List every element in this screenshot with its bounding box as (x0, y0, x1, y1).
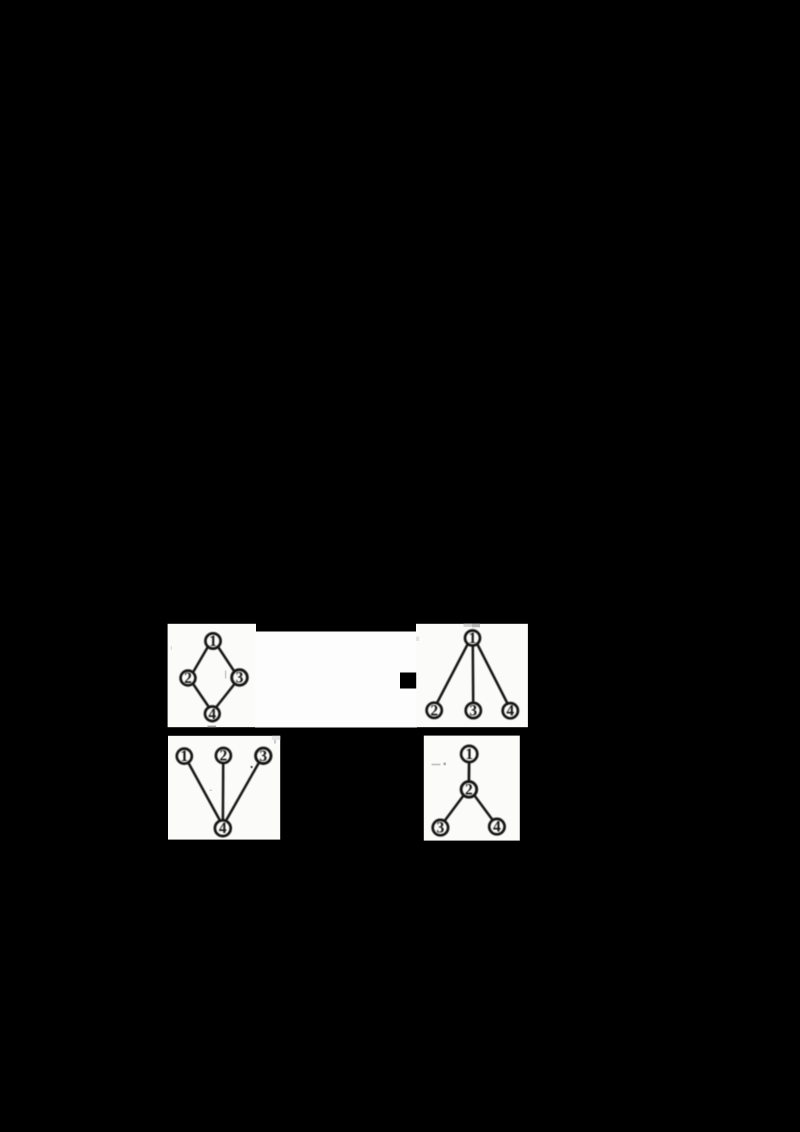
edge 2-3 (445, 796, 464, 822)
faint tick near left edge of box A (171, 647, 172, 650)
svg-text:1: 1 (465, 746, 473, 763)
svg-text:3: 3 (259, 748, 267, 765)
white panel: top-left box (168, 624, 256, 727)
svg-text:4: 4 (208, 706, 216, 723)
node B3 circle (466, 703, 481, 718)
gray smudge at bottom edge under node A4 (208, 726, 217, 728)
svg-text:3: 3 (469, 703, 477, 720)
gray dash artifact above node 1 of top-right graph (464, 624, 473, 627)
faint smudge at left edge inside box B (416, 637, 419, 642)
light-gray shading at top-right corner of bottom-left box (272, 736, 280, 740)
node C2 circle (216, 748, 231, 763)
edge 1-4 (478, 645, 508, 704)
faint gray dash left side of box D (432, 764, 441, 766)
faint speck left-middle of box C (210, 790, 213, 792)
edge 2-4 (194, 685, 210, 709)
node D4 circle (489, 819, 504, 834)
svg-text:1: 1 (209, 633, 217, 650)
svg-text:4: 4 (493, 819, 501, 836)
edge 3-4 (216, 684, 235, 708)
white panel: top-right box (416, 624, 528, 727)
edge 1-3 (219, 648, 235, 672)
svg-text:4: 4 (506, 703, 514, 720)
node B1 circle (465, 631, 480, 646)
node B4 circle (503, 703, 518, 718)
node B2 circle (427, 703, 442, 718)
white panel: middle strip (255, 632, 417, 728)
svg-text:3: 3 (236, 670, 244, 687)
svg-text:2: 2 (184, 670, 192, 687)
node A3 circle (232, 670, 248, 686)
node A1 circle (205, 633, 220, 648)
dark speck below-left of node C3 (251, 766, 253, 768)
edge 1-2 (194, 648, 208, 672)
faint tick top-right corner of box C (274, 740, 276, 744)
svg-text:1: 1 (469, 630, 477, 647)
node digits (180, 630, 514, 837)
edge 2-4 (475, 796, 494, 821)
edge 1-2 (437, 645, 468, 704)
black square marker left of top-right box (400, 673, 416, 689)
node C3 circle (256, 748, 271, 763)
svg-text:2: 2 (430, 702, 438, 719)
node C4 circle (215, 820, 231, 836)
node A2 circle (181, 671, 196, 686)
edge 1-3 (472, 646, 475, 703)
svg-text:2: 2 (220, 748, 228, 765)
node A4 circle (205, 707, 220, 722)
white panel: bottom-right box (424, 736, 520, 841)
node D2 circle (461, 782, 477, 798)
white panel: bottom-left box (168, 736, 280, 840)
node C1 circle (177, 749, 192, 764)
node D3 circle (433, 820, 448, 835)
faint gray dash between A2 and A3 (225, 671, 227, 679)
svg-text:3: 3 (437, 820, 445, 837)
edge 1-4 (189, 763, 221, 822)
edge 2-4 (222, 764, 225, 821)
svg-text:1: 1 (180, 748, 188, 765)
svg-text:2: 2 (465, 781, 473, 798)
edge 1-2 (468, 763, 471, 782)
edge 3-4 (226, 763, 260, 822)
svg-text:4: 4 (219, 820, 227, 837)
node D1 circle (461, 746, 477, 762)
